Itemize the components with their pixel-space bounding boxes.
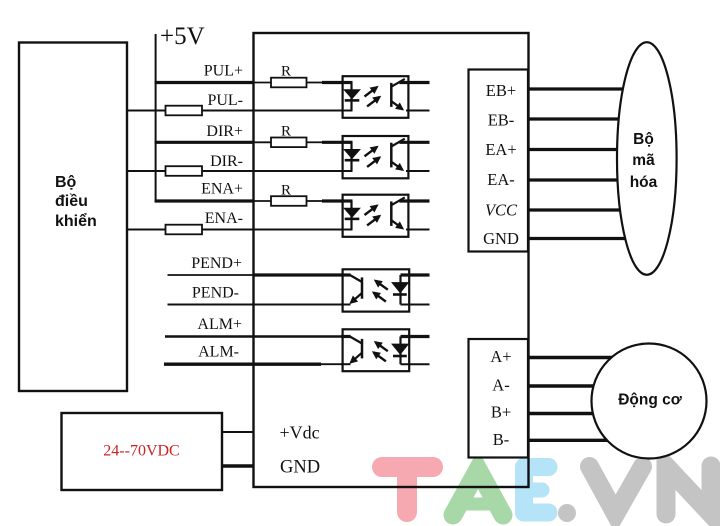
svg-text:EA-: EA- [487, 170, 515, 189]
svg-text:mã: mã [632, 152, 655, 169]
wire DIR+ thin after resistor [307, 141, 323, 143]
svg-text:GND: GND [483, 229, 519, 248]
svg-text:khiển: khiển [55, 212, 97, 230]
svg-text:+Vdc: +Vdc [280, 423, 320, 443]
wire ENA+ thick (rail to box) [155, 199, 255, 202]
svg-text:PUL+: PUL+ [204, 63, 243, 80]
svg-text:VCC: VCC [485, 201, 518, 220]
svg-text:ENA-: ENA- [205, 210, 243, 227]
wire GND to encoder [528, 237, 631, 240]
wire B- to motor [528, 439, 616, 442]
wire B+ to motor [528, 412, 616, 415]
wire PUL+ thick into opto [322, 81, 353, 84]
wire A- to motor [528, 384, 616, 387]
wire ENA+ thin after resistor [307, 200, 323, 202]
wire EB+ to encoder [528, 87, 631, 90]
power supply box 24--70VDC [62, 413, 223, 490]
svg-text:DIR+: DIR+ [206, 123, 243, 140]
encoder terminal box [469, 70, 529, 252]
wire PUL+ thin to resistor [254, 82, 272, 84]
svg-text:hóa: hóa [630, 174, 658, 191]
+5V rail [155, 34, 157, 202]
optocoupler (PUL) [341, 76, 408, 118]
svg-text:PEND-: PEND- [192, 284, 239, 301]
wire ENA- from controller [126, 229, 166, 231]
svg-text:Động cơ: Động cơ [618, 392, 683, 409]
resistor R (ENA+) [271, 196, 307, 206]
svg-text:ALM-: ALM- [198, 344, 239, 361]
svg-text:B+: B+ [491, 403, 511, 422]
svg-text:A+: A+ [490, 347, 511, 366]
driver main box [254, 33, 529, 487]
resistor (ENA- line) [166, 225, 203, 235]
optocoupler (ENA) [341, 195, 408, 237]
wire GND supply to driver [221, 464, 255, 467]
wire PEND+ thick inside box [254, 273, 352, 276]
wire DIR+ thick into opto [322, 141, 353, 144]
resistor R (DIR+) [271, 138, 307, 148]
wire ENA- to opto [202, 229, 353, 231]
wire EA- to encoder [528, 178, 631, 181]
resistor (DIR- line) [166, 166, 203, 176]
svg-text:B-: B- [493, 430, 510, 449]
svg-text:PUL-: PUL- [207, 92, 243, 109]
resistor (PUL- line) [166, 106, 203, 116]
wire ALM- thin into opto [321, 363, 351, 365]
svg-text:+5V: +5V [160, 23, 205, 50]
wire DIR- to opto [202, 170, 353, 172]
wire A+ to motor [528, 356, 616, 359]
optocoupler (PEND) [341, 269, 409, 311]
svg-text:Bộ: Bộ [55, 174, 77, 191]
svg-text:A-: A- [492, 376, 509, 395]
wire ENA+ thick into opto [322, 199, 353, 202]
resistor R (PUL+) [271, 78, 307, 88]
wire PUL+ thin after resistor [307, 82, 323, 84]
wire DIR+ thin to resistor [254, 141, 272, 143]
wire EB- to encoder [528, 117, 631, 120]
motor circle (Động cơ) [592, 344, 707, 459]
wire PUL+ thick (rail to box) [155, 81, 255, 84]
wire PUL- to opto [202, 110, 353, 112]
svg-text:điều: điều [55, 193, 88, 210]
optocoupler (ALM) [341, 329, 409, 371]
wire VCC to encoder [528, 208, 631, 211]
wire DIR- from controller [126, 170, 166, 172]
optocoupler (DIR) [341, 136, 408, 178]
svg-text:DIR-: DIR- [210, 153, 243, 170]
controller box (Bộ điều khiển) [19, 43, 127, 392]
encoder ellipse (Bộ mã hóa) [617, 42, 677, 275]
watermark TAE.VN logo [382, 466, 711, 522]
svg-text:EA+: EA+ [485, 140, 516, 159]
wire EA+ to encoder [528, 148, 631, 151]
svg-text:ENA+: ENA+ [201, 181, 243, 198]
svg-text:Bộ: Bộ [633, 131, 654, 148]
svg-text:EB+: EB+ [486, 81, 516, 100]
wire PUL- from controller [126, 110, 166, 112]
wire +Vdc supply to driver [221, 431, 255, 433]
wire DIR+ thick (rail to box) [155, 141, 255, 144]
svg-text:PEND+: PEND+ [191, 255, 242, 272]
svg-text:R: R [281, 123, 291, 139]
svg-text:ALM+: ALM+ [197, 316, 242, 333]
motor terminal box [469, 339, 529, 458]
wire ALM+ [165, 335, 351, 337]
svg-text:24--70VDC: 24--70VDC [103, 443, 179, 460]
svg-text:R: R [281, 64, 291, 80]
svg-text:EB-: EB- [488, 110, 515, 129]
svg-text:R: R [281, 182, 291, 198]
wire ENA+ thin to resistor [254, 200, 272, 202]
wire ALM- thick [164, 363, 321, 366]
wire PEND- [168, 304, 352, 306]
wire PEND+ thin [168, 274, 255, 276]
svg-text:GND: GND [280, 458, 320, 478]
